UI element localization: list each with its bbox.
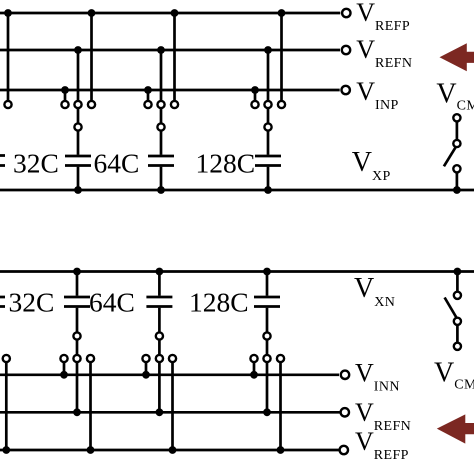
- wire V_XN rail to capacitor C3N: [266, 272, 269, 296]
- junction dot C3N / V_XN rail: [263, 268, 271, 276]
- svg-text:32C: 32C: [13, 148, 59, 179]
- node S1N pole: [73, 332, 80, 339]
- junction dot S1P right stub / V_REFP rail: [88, 9, 96, 17]
- svg-text:VXN: VXN: [354, 273, 395, 310]
- node SCMP contact V_XP side: [453, 165, 460, 172]
- wire S1N left contact to V_INN rail: [63, 363, 66, 375]
- wire SCMN pivot to contact: [456, 325, 459, 342]
- switch S2N blade (closed to V_REFN): [158, 340, 161, 354]
- node S2P pole: [157, 123, 164, 130]
- node S2N contact V_REFP: [169, 355, 176, 362]
- node S3P contact V_REFN: [264, 101, 271, 108]
- capacitor C2N (64C) bottom: [146, 296, 172, 299]
- junction dot S3P left stub / V_INP rail: [251, 86, 259, 94]
- wire S3N right contact to V_REFP rail: [279, 363, 282, 450]
- wire S2N left contact to V_INN rail: [145, 363, 148, 375]
- node S1N contact V_REFP: [87, 355, 94, 362]
- wire V_INP stub to switch S1P left contact: [64, 90, 67, 100]
- wire V_REFP stub to switch S1P right contact: [90, 13, 93, 100]
- node S1N contact V_REFN: [73, 355, 80, 362]
- junction dot S1P left stub / V_INP rail: [61, 86, 69, 94]
- wire C2P to V_XP rail: [160, 167, 163, 190]
- wire V_XP rail: [0, 189, 474, 192]
- wire C2N to switch S2N pole: [158, 308, 161, 332]
- node S2P contact V_REFN: [157, 101, 164, 108]
- switch S1P blade (closed to V_REFN): [77, 109, 80, 123]
- node S2N pole: [156, 332, 163, 339]
- wire V_REFN stub to switch S3P middle contact: [267, 50, 270, 100]
- wire S3N left contact to V_INN rail: [253, 363, 256, 375]
- wire V_XN rail to SCMN: [456, 272, 459, 292]
- junction dot SCMN / V_XN rail: [454, 268, 462, 276]
- svg-text:VREFN: VREFN: [356, 35, 412, 71]
- wire left edge stub from V_REFP rail: [7, 13, 10, 100]
- node S2P contact V_REFP: [171, 101, 178, 108]
- capacitor C3N (128C) bottom: [254, 296, 280, 299]
- junction dot S3P middle stub / V_REFN rail: [264, 46, 272, 54]
- svg-text:VCM: VCM: [436, 78, 474, 113]
- wire S1N right contact to V_REFP rail: [89, 363, 92, 450]
- wire C1P to V_XP rail: [77, 167, 80, 190]
- junction dot S1N / V_REFN rail: [73, 408, 81, 416]
- node S1P contact V_REFP: [88, 101, 95, 108]
- node V_REFP terminal (bottom): [340, 446, 348, 454]
- switch SCMP blade (open): [444, 147, 456, 166]
- wire C3N to switch S3N pole: [266, 308, 269, 332]
- node S3P pole: [264, 123, 271, 130]
- wire S1N middle contact to V_REFN rail: [76, 363, 79, 413]
- wire S1P pole to capacitor: [77, 131, 80, 155]
- wire V_REFN rail (top): [0, 49, 340, 52]
- junction dot S3P right stub / V_REFP rail: [278, 9, 286, 17]
- node S1P pole: [74, 123, 81, 130]
- junction dot left stub / V_REFP rail: [4, 9, 12, 17]
- junction dot S2P left stub / V_INP rail: [144, 86, 152, 94]
- svg-text:VXP: VXP: [352, 147, 391, 184]
- node S2N contact V_REFN: [156, 355, 163, 362]
- wire V_INP rail: [0, 89, 340, 92]
- wire S2N middle contact to V_REFN rail: [158, 363, 161, 413]
- arrow to comparator (bottom): [437, 414, 474, 443]
- node S2N contact V_INN: [142, 355, 149, 362]
- wire V_XN rail to capacitor C1N: [76, 272, 79, 296]
- switch S1N blade (closed to V_REFN): [76, 340, 79, 354]
- capacitor cut-off at left edge (bottom): [0, 296, 5, 299]
- wire V_INN rail: [0, 373, 339, 376]
- node S1P contact V_REFN: [74, 101, 81, 108]
- node SCMP pivot: [453, 140, 460, 147]
- wire V_REFN stub to switch S1P middle contact: [77, 50, 80, 100]
- wire left edge stub to V_REFP rail (bottom): [5, 363, 8, 450]
- junction dot C2P / V_XP rail: [157, 186, 165, 194]
- wire V_REFN rail (bottom): [0, 411, 340, 414]
- wire V_REFP stub to switch S3P right contact: [280, 13, 283, 100]
- junction dot SCMP / V_XP rail: [453, 186, 461, 194]
- junction dot C1P / V_XP rail: [74, 186, 82, 194]
- node SCMN contact V_XN side: [454, 292, 461, 299]
- node switch contact left edge (top): [4, 101, 11, 108]
- svg-text:VINN: VINN: [355, 358, 400, 394]
- wire V_INP stub to switch S2P left contact: [147, 90, 150, 100]
- junction dot S3N / V_REFP rail: [277, 446, 285, 454]
- svg-text:VREFP: VREFP: [356, 0, 410, 34]
- node S2P contact V_INP: [144, 101, 151, 108]
- wire V_REFP rail (bottom): [0, 449, 339, 452]
- node SCMN pivot: [454, 318, 461, 325]
- node S3N contact V_REFN: [263, 355, 270, 362]
- svg-text:VINP: VINP: [356, 77, 399, 113]
- wire V_REFN stub to switch S2P middle contact: [160, 50, 163, 100]
- wire S3P pole to capacitor: [267, 131, 270, 155]
- switch S3P blade (closed to V_REFN): [267, 109, 270, 123]
- capacitor C2P (64C) top: [148, 155, 174, 158]
- arrow to comparator (top): [440, 43, 474, 71]
- junction dot S2N / V_INN rail: [142, 371, 150, 379]
- wire SCMP to V_XP rail: [456, 173, 459, 190]
- capacitor C3P (128C) top: [255, 155, 281, 158]
- junction dot S3N / V_REFN rail: [263, 408, 271, 416]
- wire V_XN rail: [0, 270, 474, 273]
- node switch SCMP contact V_CM: [453, 114, 460, 121]
- node SCMN contact V_CM: [454, 343, 461, 350]
- junction dot S1P middle stub / V_REFN rail: [74, 46, 82, 54]
- node S3N pole: [263, 332, 270, 339]
- junction dot S2P right stub / V_REFP rail: [171, 9, 179, 17]
- svg-text:32C: 32C: [9, 287, 55, 318]
- capacitor C1N (32C) bottom: [64, 296, 90, 299]
- junction dot S2N / V_REFP rail: [169, 446, 177, 454]
- svg-text:128C: 128C: [196, 148, 256, 179]
- wire C1N to switch S1N pole: [76, 308, 79, 332]
- junction dot C2N / V_XN rail: [156, 268, 164, 276]
- svg-text:128C: 128C: [189, 287, 249, 318]
- junction dot C1N / V_XN rail: [73, 268, 81, 276]
- wire S3N middle contact to V_REFN rail: [266, 363, 269, 413]
- capacitor C1P (32C) top: [65, 155, 91, 158]
- svg-text:VCM: VCM: [434, 358, 474, 393]
- capacitor cut-off at left edge (top): [0, 154, 5, 157]
- wire V_INP stub to switch S3P left contact: [254, 90, 257, 100]
- wire SCMP contact to pivot: [456, 122, 459, 139]
- switch S3N blade (closed to V_REFN): [266, 340, 269, 354]
- node S1N contact V_INN: [60, 355, 67, 362]
- junction dot C3P / V_XP rail: [264, 186, 272, 194]
- node V_INP terminal: [342, 86, 350, 94]
- junction dot S1N / V_REFP rail: [87, 446, 95, 454]
- node V_REFN terminal (top): [342, 46, 350, 54]
- node S3P contact V_INP: [251, 101, 258, 108]
- wire S2P pole to capacitor: [160, 131, 163, 155]
- node S1P contact V_INP: [61, 101, 68, 108]
- wire V_XN rail to capacitor C2N: [158, 272, 161, 296]
- wire C3P to V_XP rail: [267, 167, 270, 190]
- junction dot S2P middle stub / V_REFN rail: [157, 46, 165, 54]
- node S3P contact V_REFP: [278, 101, 285, 108]
- node V_REFP terminal (top): [342, 9, 350, 17]
- switch SCMN blade (open): [445, 298, 457, 318]
- svg-text:64C: 64C: [89, 287, 135, 318]
- junction dot left stub / V_REFP rail (bottom): [2, 446, 10, 454]
- wire V_REFP stub to switch S2P right contact: [173, 13, 176, 100]
- junction dot S2N / V_REFN rail: [156, 408, 164, 416]
- node V_INN terminal: [341, 371, 349, 379]
- node S3N contact V_INN: [250, 355, 257, 362]
- junction dot S1N / V_INN rail: [60, 371, 68, 379]
- wire S2N right contact to V_REFP rail: [171, 363, 174, 450]
- node V_REFN terminal (bottom): [341, 408, 349, 416]
- junction dot S3N / V_INN rail: [250, 371, 258, 379]
- node switch contact left edge (bottom): [3, 355, 10, 362]
- node S3N contact V_REFP: [277, 355, 284, 362]
- wire V_REFP rail (top): [0, 12, 340, 15]
- svg-text:64C: 64C: [94, 148, 140, 179]
- switch S2P blade (closed to V_REFN): [160, 109, 163, 123]
